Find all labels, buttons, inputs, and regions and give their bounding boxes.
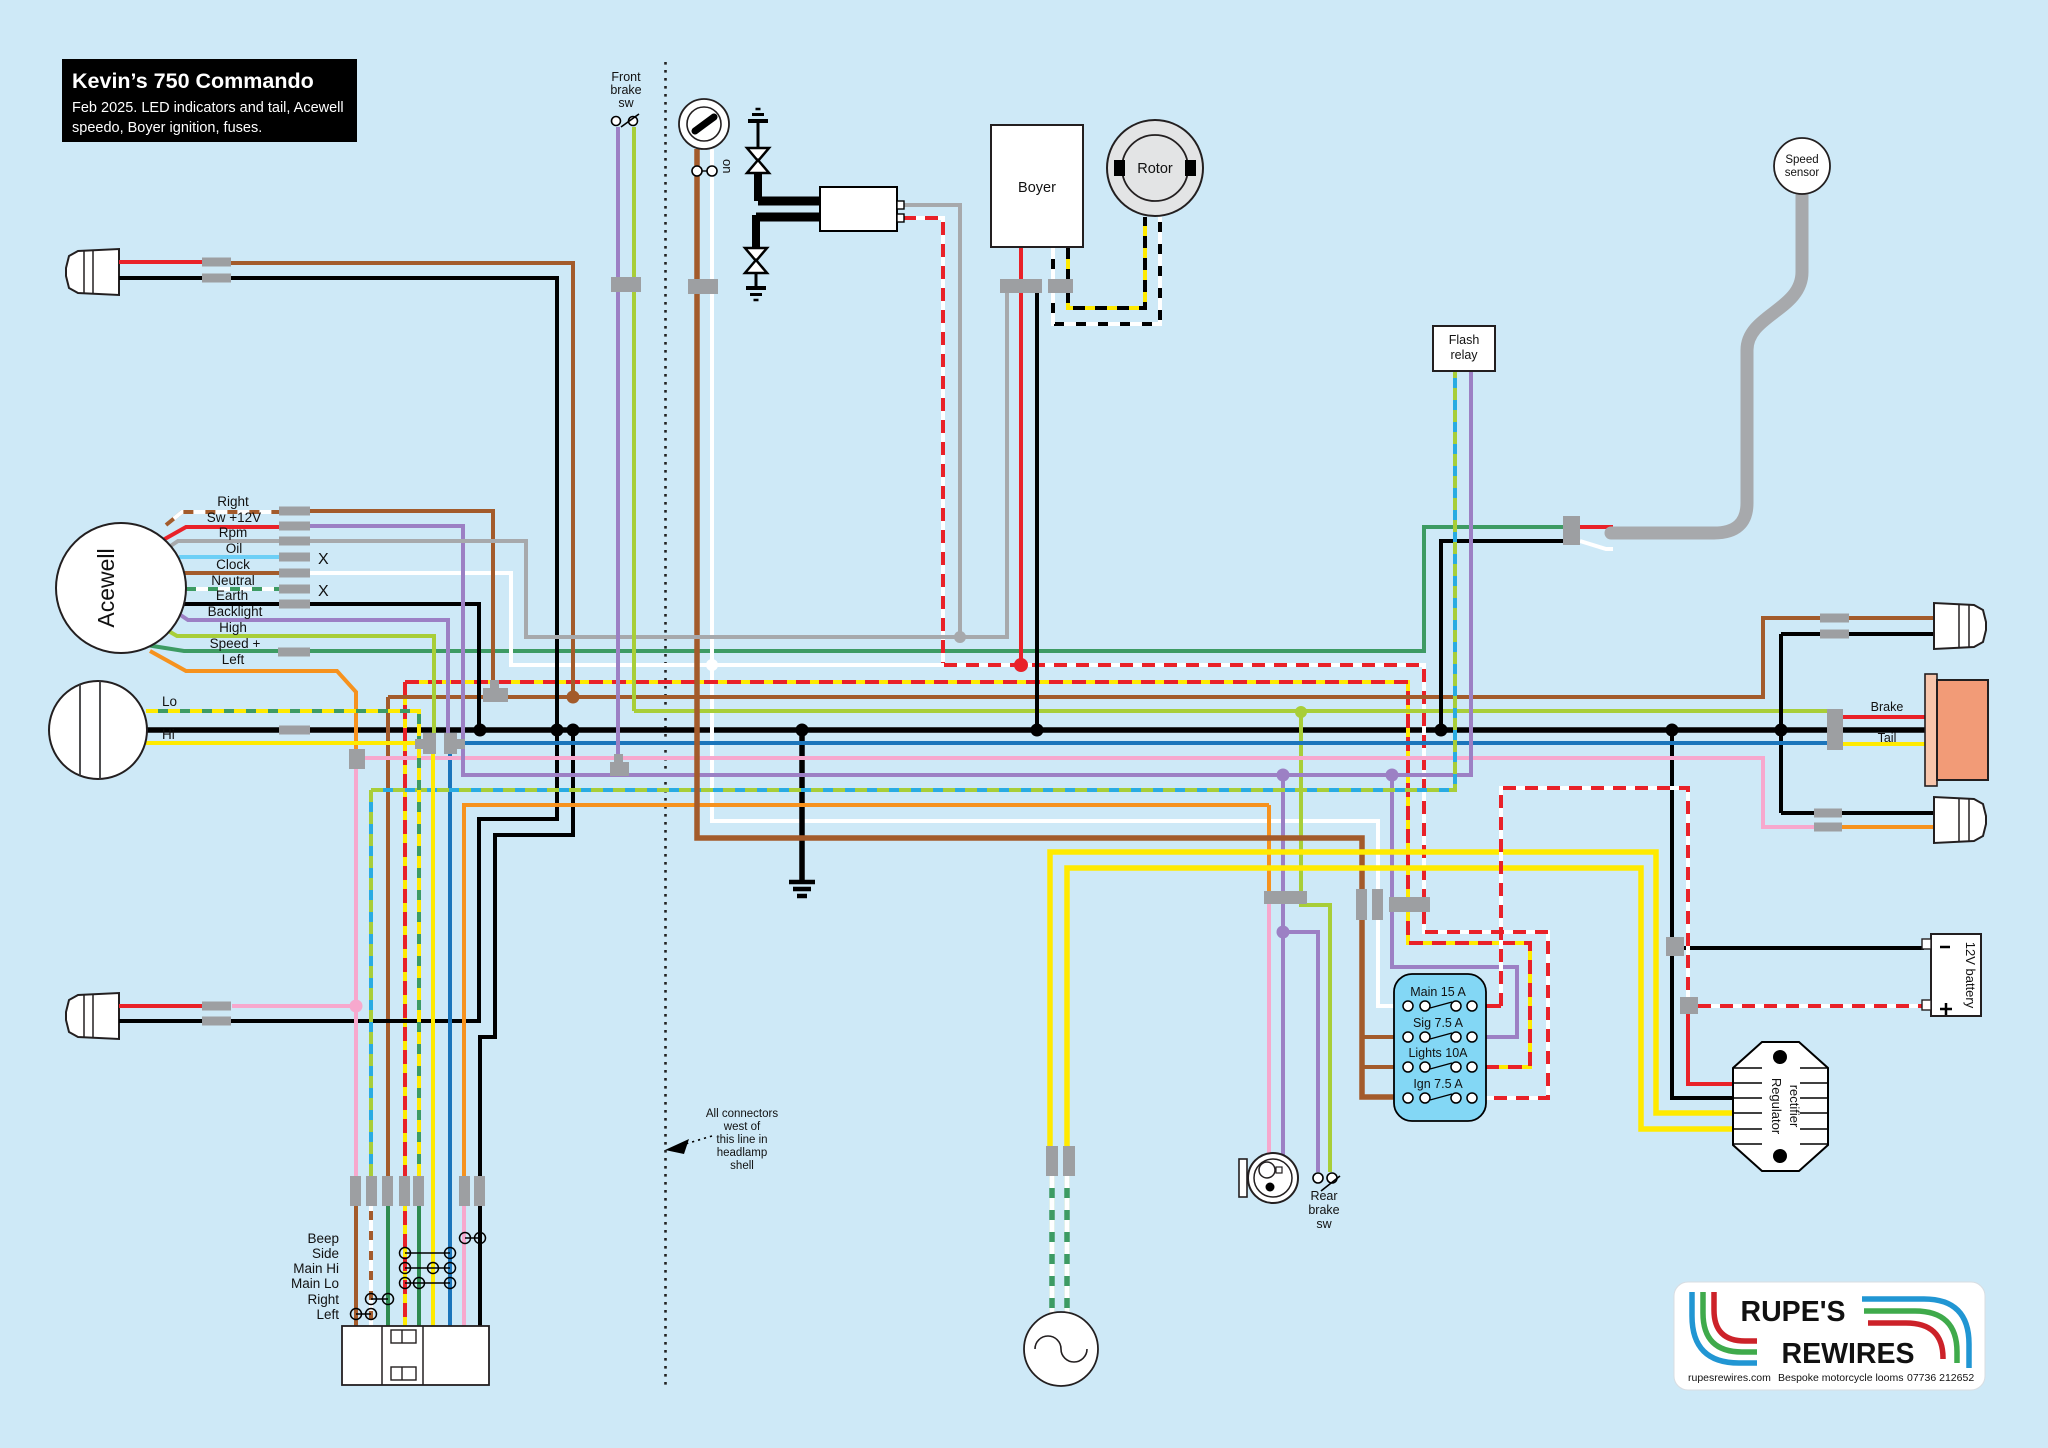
svg-text:Right: Right	[217, 494, 249, 509]
component: spark plug lower with ground	[745, 215, 767, 300]
wire: black/white dashed Boyer to rotor	[1053, 217, 1160, 324]
labels: Acewell wire names	[207, 494, 263, 667]
wire: red Sw+12V at Acewell	[163, 527, 281, 540]
svg-text:High: High	[219, 620, 247, 635]
node: bus junction at Earth drop	[474, 724, 487, 737]
svg-text:Lo: Lo	[162, 694, 177, 709]
svg-text:sensor: sensor	[1785, 167, 1820, 179]
connector: front brake switch connector	[611, 277, 641, 292]
svg-text:Backlight: Backlight	[208, 604, 263, 619]
node: pink junction bottom-left indicator	[350, 1000, 363, 1013]
wire: black from Boyer connector to bus	[1035, 293, 1039, 730]
svg-text:Boyer: Boyer	[1018, 180, 1056, 196]
wire: red from Main fuse up over to battery tee	[1477, 1004, 1501, 1008]
node: bus junction at Boyer drop	[1031, 724, 1044, 737]
svg-text:REWIRES: REWIRES	[1781, 1338, 1914, 1370]
svg-text:Main 15 A: Main 15 A	[1410, 985, 1466, 999]
node: purple junction rear brake branch	[1277, 926, 1290, 939]
note: all connectors west of this line	[665, 1108, 778, 1172]
wire: blue handlebar column col7	[448, 753, 452, 1326]
svg-text:Rotor: Rotor	[1137, 161, 1173, 177]
wire: brown turn-right run to right front indicator	[388, 618, 1822, 697]
svg-text:Acewell: Acewell	[93, 548, 119, 627]
svg-text:headlamp: headlamp	[717, 1147, 768, 1159]
svg-text:relay: relay	[1450, 348, 1478, 362]
svg-text:Tail: Tail	[1878, 731, 1897, 745]
wire: yellow Hi from headlamp	[146, 741, 428, 745]
component: speed sensor	[1774, 138, 1830, 194]
wire: black bus down to battery minus and regulator	[1672, 730, 1735, 1098]
wire: orange right rear indicator stub	[1842, 825, 1936, 829]
wire: green handlebar col5 lower	[417, 1191, 421, 1326]
node: bus junction at battery drop	[1666, 724, 1679, 737]
wire: black from top-left indicator through bus to bottom-left indicator	[231, 278, 557, 1021]
node: bus junction at ground drop	[796, 724, 809, 737]
svg-text:Left: Left	[222, 652, 245, 667]
connector: brown tee Right wire	[483, 680, 508, 702]
svg-text:rectifier: rectifier	[1787, 1085, 1802, 1128]
wire: yellow/black dashed Boyer to rotor	[1068, 217, 1145, 308]
wire: lime brake-light run front brake sw to tail connector	[634, 709, 1827, 713]
svg-text:Speed: Speed	[1785, 154, 1818, 166]
connector: brown fuse feed connector	[1356, 889, 1367, 920]
connector: Boyer rotor connector	[1048, 279, 1073, 293]
component: top-left indicator	[66, 249, 119, 295]
component: Rupe's Rewires logo	[1674, 1282, 1985, 1390]
wire: red/white dashed battery plus lead	[1698, 1004, 1924, 1008]
svg-text:Lights 10A: Lights 10A	[1408, 1046, 1468, 1060]
svg-text:Sig 7.5 A: Sig 7.5 A	[1413, 1016, 1464, 1030]
wire: yellow alternator lead B to regulator	[1067, 868, 1735, 1148]
wire: brown handlebar col1 lower	[354, 1191, 358, 1326]
wire: lime Acewell High drop	[165, 629, 434, 735]
wire: handlebar col3 green lower	[386, 1191, 390, 1326]
svg-text:sw: sw	[1316, 1217, 1332, 1231]
svg-text:Beep: Beep	[307, 1231, 339, 1246]
connector: battery minus tee	[1666, 937, 1684, 956]
switch terminals: Side row	[400, 1248, 456, 1259]
component: fuse box	[1394, 974, 1486, 1121]
connector: battery plus tee	[1680, 997, 1698, 1014]
switch terminals: Main Hi row	[400, 1263, 456, 1274]
svg-text:Regulator: Regulator	[1769, 1078, 1784, 1135]
wire: Acewell Clock brown stub	[184, 571, 281, 575]
node: bus junction at speed sensor riser	[1435, 724, 1448, 737]
switch terminals: Left row	[351, 1309, 377, 1320]
wire: red/white from coil to white run	[903, 218, 943, 663]
wire: brown Acewell Right wire down to tee	[310, 511, 493, 688]
wire: brown from left top indicator to node	[229, 263, 573, 695]
component: ignition coils box	[820, 187, 904, 231]
wire: purple Acewell Backlight drop	[176, 612, 448, 735]
svg-text:RUPE'S: RUPE'S	[1741, 1296, 1846, 1328]
wire: red from Boyer down to node	[1019, 247, 1023, 665]
wire: purple front brake switch drop	[616, 127, 620, 760]
svg-text:brake: brake	[610, 83, 641, 97]
connector: Hi yellow/lime tee	[415, 733, 436, 754]
connector: speed sensor connector	[1563, 516, 1580, 545]
svg-text:Main Hi: Main Hi	[293, 1261, 339, 1276]
wire: black bus branch to handlebar switch col9	[480, 730, 573, 1326]
wire: black bus up to speed sensor connector	[1441, 541, 1566, 730]
wire: pink signal run to right rear indicator	[356, 758, 1814, 827]
component: flash relay	[1433, 326, 1495, 371]
connector: pink tee at x356	[349, 749, 365, 769]
switch terminals: Beep row	[460, 1233, 486, 1244]
connector: handlebar loom connectors	[350, 1176, 485, 1206]
wire: purple drop to Sig fuse	[1392, 775, 1517, 1037]
component: rotor	[1107, 120, 1203, 216]
connector: purple tee front brake	[610, 754, 629, 776]
svg-text:Hi: Hi	[162, 727, 175, 742]
svg-text:brake: brake	[1308, 1203, 1339, 1217]
node: white junction at ignition drop	[706, 659, 718, 671]
wire: black stub top-left indicator	[119, 276, 202, 280]
wire: orange upper then pink lower drop to horn	[1267, 805, 1271, 893]
svg-text:Side: Side	[312, 1246, 339, 1261]
wire: black stub bottom-left indicator	[119, 1019, 202, 1023]
switch terminals: Main Lo row	[400, 1278, 456, 1289]
svg-text:shell: shell	[730, 1160, 754, 1172]
wire: purple Sw+12V feed run to flash relay	[310, 371, 1471, 775]
wire: green/yellow dashed Lo from headlamp	[146, 711, 419, 1191]
svg-text:X: X	[318, 583, 329, 600]
wire: lime front brake switch drop	[632, 127, 636, 711]
svg-text:Feb 2025. LED indicators and t: Feb 2025. LED indicators and tail, Acewe…	[72, 100, 344, 116]
wire: black bus main earth run headlamp to tail light	[146, 727, 1928, 733]
wire: orange Acewell Left lead	[150, 651, 356, 750]
svg-text:Main Lo: Main Lo	[291, 1276, 339, 1291]
svg-text:Clock: Clock	[216, 557, 250, 572]
connector: right bottom indicator connectors	[1814, 809, 1842, 832]
component: right bottom indicator	[1934, 797, 1986, 843]
svg-text:rupesrewires.com: rupesrewires.com	[1688, 1372, 1771, 1384]
connector: top-left indicator connectors	[202, 258, 231, 283]
svg-text:Neutral: Neutral	[211, 573, 255, 588]
connector: right top indicator connectors	[1820, 614, 1849, 639]
svg-text:Right: Right	[307, 1292, 339, 1307]
wire: HT lead lower coil	[756, 213, 820, 222]
wire: thick gray speed sensor cable	[1611, 192, 1802, 533]
wire: Acewell Earth black to bus	[184, 604, 479, 730]
svg-text:Flash: Flash	[1449, 333, 1480, 347]
wire: brown right indicator stub after connector	[1849, 616, 1936, 620]
wire: brown stub to Sig fuse	[1362, 1035, 1404, 1039]
wire: thick brown ignition switch feed to fuses	[697, 149, 1404, 1097]
component: regulator rectifier	[1733, 1042, 1828, 1171]
connector: Acewell bullet connectors column	[278, 507, 310, 735]
svg-text:X: X	[318, 551, 329, 568]
wire: sky blue Acewell Oil	[179, 555, 281, 559]
svg-text:Bespoke motorcycle looms: Bespoke motorcycle looms	[1778, 1372, 1903, 1384]
wire: black stub to right bottom indicator	[1781, 811, 1936, 815]
svg-text:12V battery: 12V battery	[1963, 942, 1978, 1009]
connector: Boyer main connector	[1000, 279, 1042, 293]
wire: red/yellow dashed handlebar column	[403, 682, 407, 1326]
wire: Acewell Clock white run	[310, 573, 946, 665]
svg-text:Left: Left	[316, 1307, 339, 1322]
wire: pink handlebar col1 upper	[354, 768, 358, 1191]
wire: blue/lime dashed handlebar col2 upper	[369, 790, 373, 1191]
wire: brown/white dashed handlebar col2 lower	[369, 1191, 373, 1326]
svg-text:sw: sw	[618, 96, 634, 110]
connector: bottom-left indicator connectors	[202, 1002, 231, 1026]
component: rear brake switch	[1308, 1173, 1340, 1231]
wire: lime branch down to rear brake sw	[1301, 712, 1330, 1172]
wire: white/red-trace run to Ign fuse	[944, 665, 1548, 1098]
wire: red/yellow dashed main run col4 to Lights fuse	[405, 682, 1530, 1067]
node: purple junction horn drop	[1277, 769, 1290, 782]
title block	[62, 59, 357, 142]
node: bus junction at right indicators riser	[1775, 724, 1788, 737]
svg-text:west of: west of	[723, 1121, 761, 1133]
wire: purple drop to horn	[1281, 775, 1285, 1157]
wire: red stub top-left indicator	[119, 260, 202, 264]
wire: gray from coil to rpm run	[903, 205, 960, 637]
wire: yellow handlebar col6	[431, 752, 435, 1326]
wire: yellow Tail stub into tail light	[1843, 742, 1928, 746]
component: bottom-left indicator	[66, 993, 119, 1039]
connector: white fuse feed connector	[1372, 889, 1383, 920]
svg-text:Speed +: Speed +	[210, 636, 261, 651]
wire: black ground drop from bus	[799, 730, 805, 880]
node: brown junction at x573	[567, 691, 580, 704]
component: ignition switch	[679, 99, 735, 176]
wire: gray Acewell Rpm run to Boyer	[310, 293, 1007, 637]
wire: red speed sensor stub	[1580, 525, 1613, 529]
component: tail light	[1925, 674, 1988, 786]
wire: red stub bottom-left indicator	[119, 1004, 202, 1008]
wire: pink from bottom-left indicator	[232, 1004, 356, 1008]
svg-text:Kevin’s 750 Commando: Kevin’s 750 Commando	[72, 69, 314, 93]
wire: green Speed+ from Acewell to speed sensor connector	[140, 527, 1566, 651]
node: purple junction fuse drop	[1386, 769, 1399, 782]
node: red junction at Boyer drop	[1014, 658, 1028, 672]
wire: red drop from tee to regulator	[1688, 1012, 1735, 1084]
connector: ignition switch connector	[688, 279, 718, 294]
wire: purple branch to rear brake sw	[1283, 932, 1318, 1172]
wire: blue headlamp Hi feed run	[450, 741, 1827, 745]
svg-text:Oil: Oil	[226, 541, 243, 556]
svg-text:Sw +12V: Sw +12V	[207, 510, 261, 525]
node: gray junction on rpm run	[954, 631, 966, 643]
wire: green/white dashed Acewell Neutral	[186, 587, 281, 591]
node: bus junction at indicator riser	[551, 724, 564, 737]
component: handlebar switch unit	[342, 1326, 489, 1385]
component: front brake switch	[610, 70, 641, 127]
svg-text:Brake: Brake	[1871, 700, 1904, 714]
connector: purple and red/yellow connector	[1389, 897, 1430, 912]
svg-text:All connectors: All connectors	[706, 1108, 778, 1120]
connector: alternator connectors	[1046, 1146, 1075, 1176]
component: headlamp	[49, 681, 147, 779]
connector: blue feed tee	[444, 733, 465, 754]
wire: brown/white dashed Acewell Right	[166, 512, 281, 525]
wire: brown stub to Lights fuse	[1362, 1065, 1404, 1069]
component: spark plug upper with ground	[747, 109, 769, 201]
svg-text:speedo, Boyer ignition, fuses.: speedo, Boyer ignition, fuses.	[72, 120, 262, 136]
wire: white speed sensor stub	[1580, 541, 1613, 549]
connector: tail light connector	[1827, 709, 1843, 750]
wire: black battery minus lead	[1676, 946, 1924, 950]
node: lime junction brake run	[1295, 706, 1307, 718]
component: 12V battery	[1922, 934, 1981, 1016]
component: alternator	[1024, 1312, 1098, 1386]
component: right top indicator	[1934, 603, 1986, 649]
svg-text:Front: Front	[611, 70, 641, 84]
switch terminals: Right row	[366, 1294, 394, 1305]
svg-text:Rear: Rear	[1310, 1189, 1337, 1203]
component: Boyer box	[991, 125, 1083, 247]
wire: yellow alternator lead A to regulator	[1050, 852, 1735, 1148]
wire: red Brake stub into tail light	[1843, 715, 1928, 719]
wire: black right indicators riser	[1779, 634, 1783, 813]
labels: handlebar switch rows	[291, 1231, 339, 1322]
component: horn	[1239, 1153, 1298, 1203]
wire: green/white dashed alternator tails	[1049, 1176, 1055, 1313]
wire: HT lead upper coil	[758, 197, 820, 206]
wire: red trace overlay on white run	[944, 665, 1548, 1098]
wire: Acewell Rpm gray stub	[166, 541, 281, 549]
wire: orange horn feed run	[464, 805, 1269, 1191]
node: bus junction at switch drop	[567, 724, 580, 737]
wire: pink handlebar col8 lower	[462, 1191, 466, 1326]
ground symbol below bus	[789, 882, 815, 896]
svg-text:Earth: Earth	[216, 588, 248, 603]
svg-text:07736 212652: 07736 212652	[1907, 1372, 1974, 1384]
headlamp shell separator dotted line	[664, 62, 667, 1390]
svg-text:this line in: this line in	[716, 1134, 767, 1146]
connector: horn feed connector	[1264, 891, 1307, 904]
svg-text:Ign 7.5 A: Ign 7.5 A	[1413, 1077, 1463, 1091]
svg-text:on: on	[720, 159, 735, 173]
wire: black stub to right top indicator	[1781, 632, 1936, 636]
component: Acewell speedo	[56, 523, 186, 653]
wire: blue/lime dashed indicator feed run to flash relay	[371, 371, 1455, 790]
svg-text:Rpm: Rpm	[219, 525, 248, 540]
wire: white from ignition switch down through node to Main fuse	[712, 149, 1404, 1006]
wire: handlebar col3 brown upper	[386, 697, 390, 1191]
